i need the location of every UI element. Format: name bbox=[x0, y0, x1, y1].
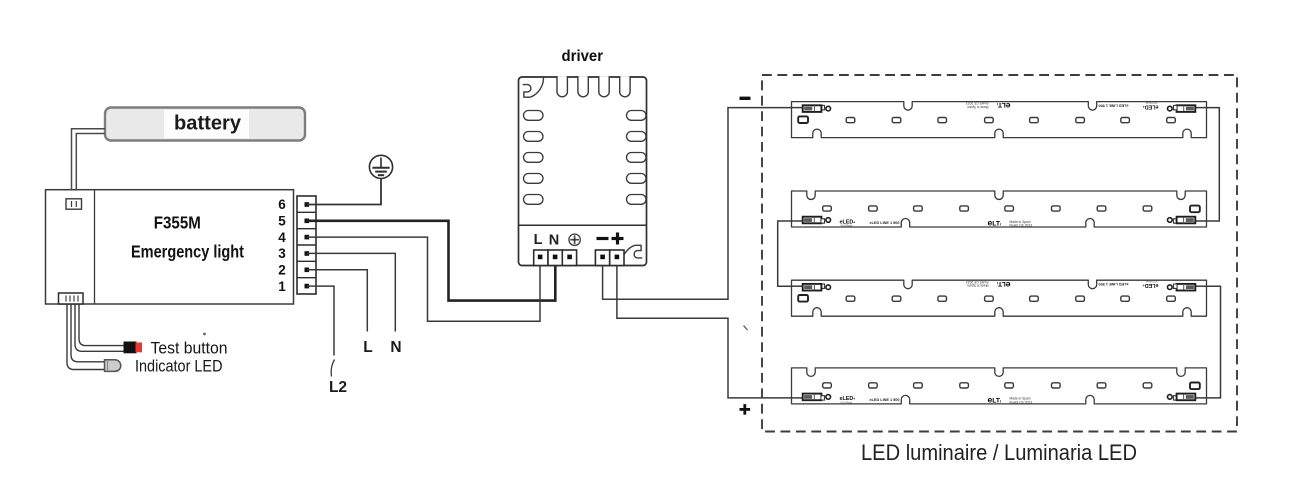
driver label minus bbox=[597, 237, 609, 240]
test button SW bbox=[124, 342, 143, 354]
driver earth screw symbol bbox=[569, 234, 580, 245]
svg-text:5: 5 bbox=[278, 214, 286, 229]
dashed luminaire enclosure bbox=[762, 75, 1237, 432]
svg-text:L: L bbox=[534, 232, 543, 248]
wire to test button lead B bbox=[79, 304, 124, 346]
battery connector J1 bbox=[66, 199, 82, 209]
wire terminal 3 to N bbox=[307, 253, 395, 331]
driver terminal blocks - + bbox=[595, 250, 624, 266]
driver terminal pins bbox=[538, 255, 619, 260]
battery wire - bbox=[76, 134, 105, 199]
stray mark bbox=[203, 333, 206, 336]
driver terminal cover separator bbox=[519, 224, 647, 226]
driver keyhole top-left bbox=[523, 77, 544, 97]
wire terminal 2 to L bbox=[307, 270, 367, 332]
box F355M emergency light unit bbox=[46, 190, 294, 304]
driver keyhole bottom-right bbox=[621, 245, 642, 265]
svg-text:battery: battery bbox=[174, 113, 242, 135]
wire terminal 1 to switch L2 bbox=[307, 286, 334, 355]
wire terminal 6 to earth bbox=[307, 179, 381, 205]
wire strip3 to strip4 bbox=[1186, 286, 1221, 398]
svg-text:4: 4 bbox=[278, 230, 286, 245]
svg-text:6: 6 bbox=[278, 197, 286, 212]
wire to test button lead A bbox=[75, 304, 124, 351]
terminal pin dots bbox=[305, 202, 310, 288]
LED strip 1 bbox=[792, 101, 1207, 138]
svg-text:driver: driver bbox=[562, 48, 604, 65]
driver body U2 bbox=[519, 77, 647, 266]
battery wire + bbox=[72, 129, 106, 199]
svg-text:F355M: F355M bbox=[154, 212, 201, 232]
svg-text:N: N bbox=[390, 339, 401, 356]
label minus at luminaire bbox=[740, 97, 751, 100]
svg-text:2: 2 bbox=[278, 263, 286, 278]
driver label plus bbox=[612, 233, 624, 245]
wire strip1 to strip2 bbox=[1186, 108, 1219, 221]
earth ground symbol bbox=[369, 155, 392, 178]
wire to indicator LED lead A bbox=[67, 304, 105, 370]
switch contact to L2 bbox=[331, 360, 334, 377]
wire strip2 to strip3 bbox=[778, 221, 812, 286]
driver top vent notches bbox=[557, 76, 630, 97]
driver side vents right bbox=[627, 111, 647, 205]
svg-text:3: 3 bbox=[278, 246, 286, 261]
LED strip 4 bbox=[791, 368, 1206, 405]
wire driver minus to strip 1 bbox=[603, 108, 812, 300]
LED strip 2 bbox=[791, 191, 1206, 228]
stray tick mark bbox=[744, 326, 748, 331]
wire terminal 4 to driver L bbox=[307, 237, 540, 321]
F355M inner divider bbox=[94, 190, 96, 304]
svg-text:N: N bbox=[549, 233, 559, 249]
terminal numbers 6-1 bbox=[278, 197, 286, 294]
svg-text:Indicator LED: Indicator LED bbox=[135, 358, 223, 376]
driver side vents left bbox=[524, 111, 544, 205]
wire driver plus to strip 4 bbox=[617, 266, 812, 398]
wire to indicator LED lead B bbox=[71, 304, 105, 362]
svg-text:L: L bbox=[363, 339, 372, 356]
battery B1 bbox=[105, 108, 305, 141]
svg-text:LED luminaire / Luminaria LE: LED luminaire / Luminaria LED bbox=[861, 440, 1137, 465]
terminal strip TB1 bbox=[297, 196, 316, 294]
svg-text:L2: L2 bbox=[329, 379, 347, 396]
wire terminal 5 to driver N bbox=[307, 221, 555, 301]
svg-text:Emergency light: Emergency light bbox=[131, 242, 244, 262]
svg-text:Test button: Test button bbox=[151, 340, 228, 358]
LED strip 3 bbox=[792, 280, 1207, 317]
driver terminal blocks L N PE bbox=[534, 250, 577, 266]
indicator LED D1 bbox=[105, 360, 121, 372]
connector J2 (test/indicator) bbox=[59, 293, 84, 304]
svg-text:1: 1 bbox=[278, 279, 286, 294]
label plus at luminaire bbox=[740, 404, 751, 415]
